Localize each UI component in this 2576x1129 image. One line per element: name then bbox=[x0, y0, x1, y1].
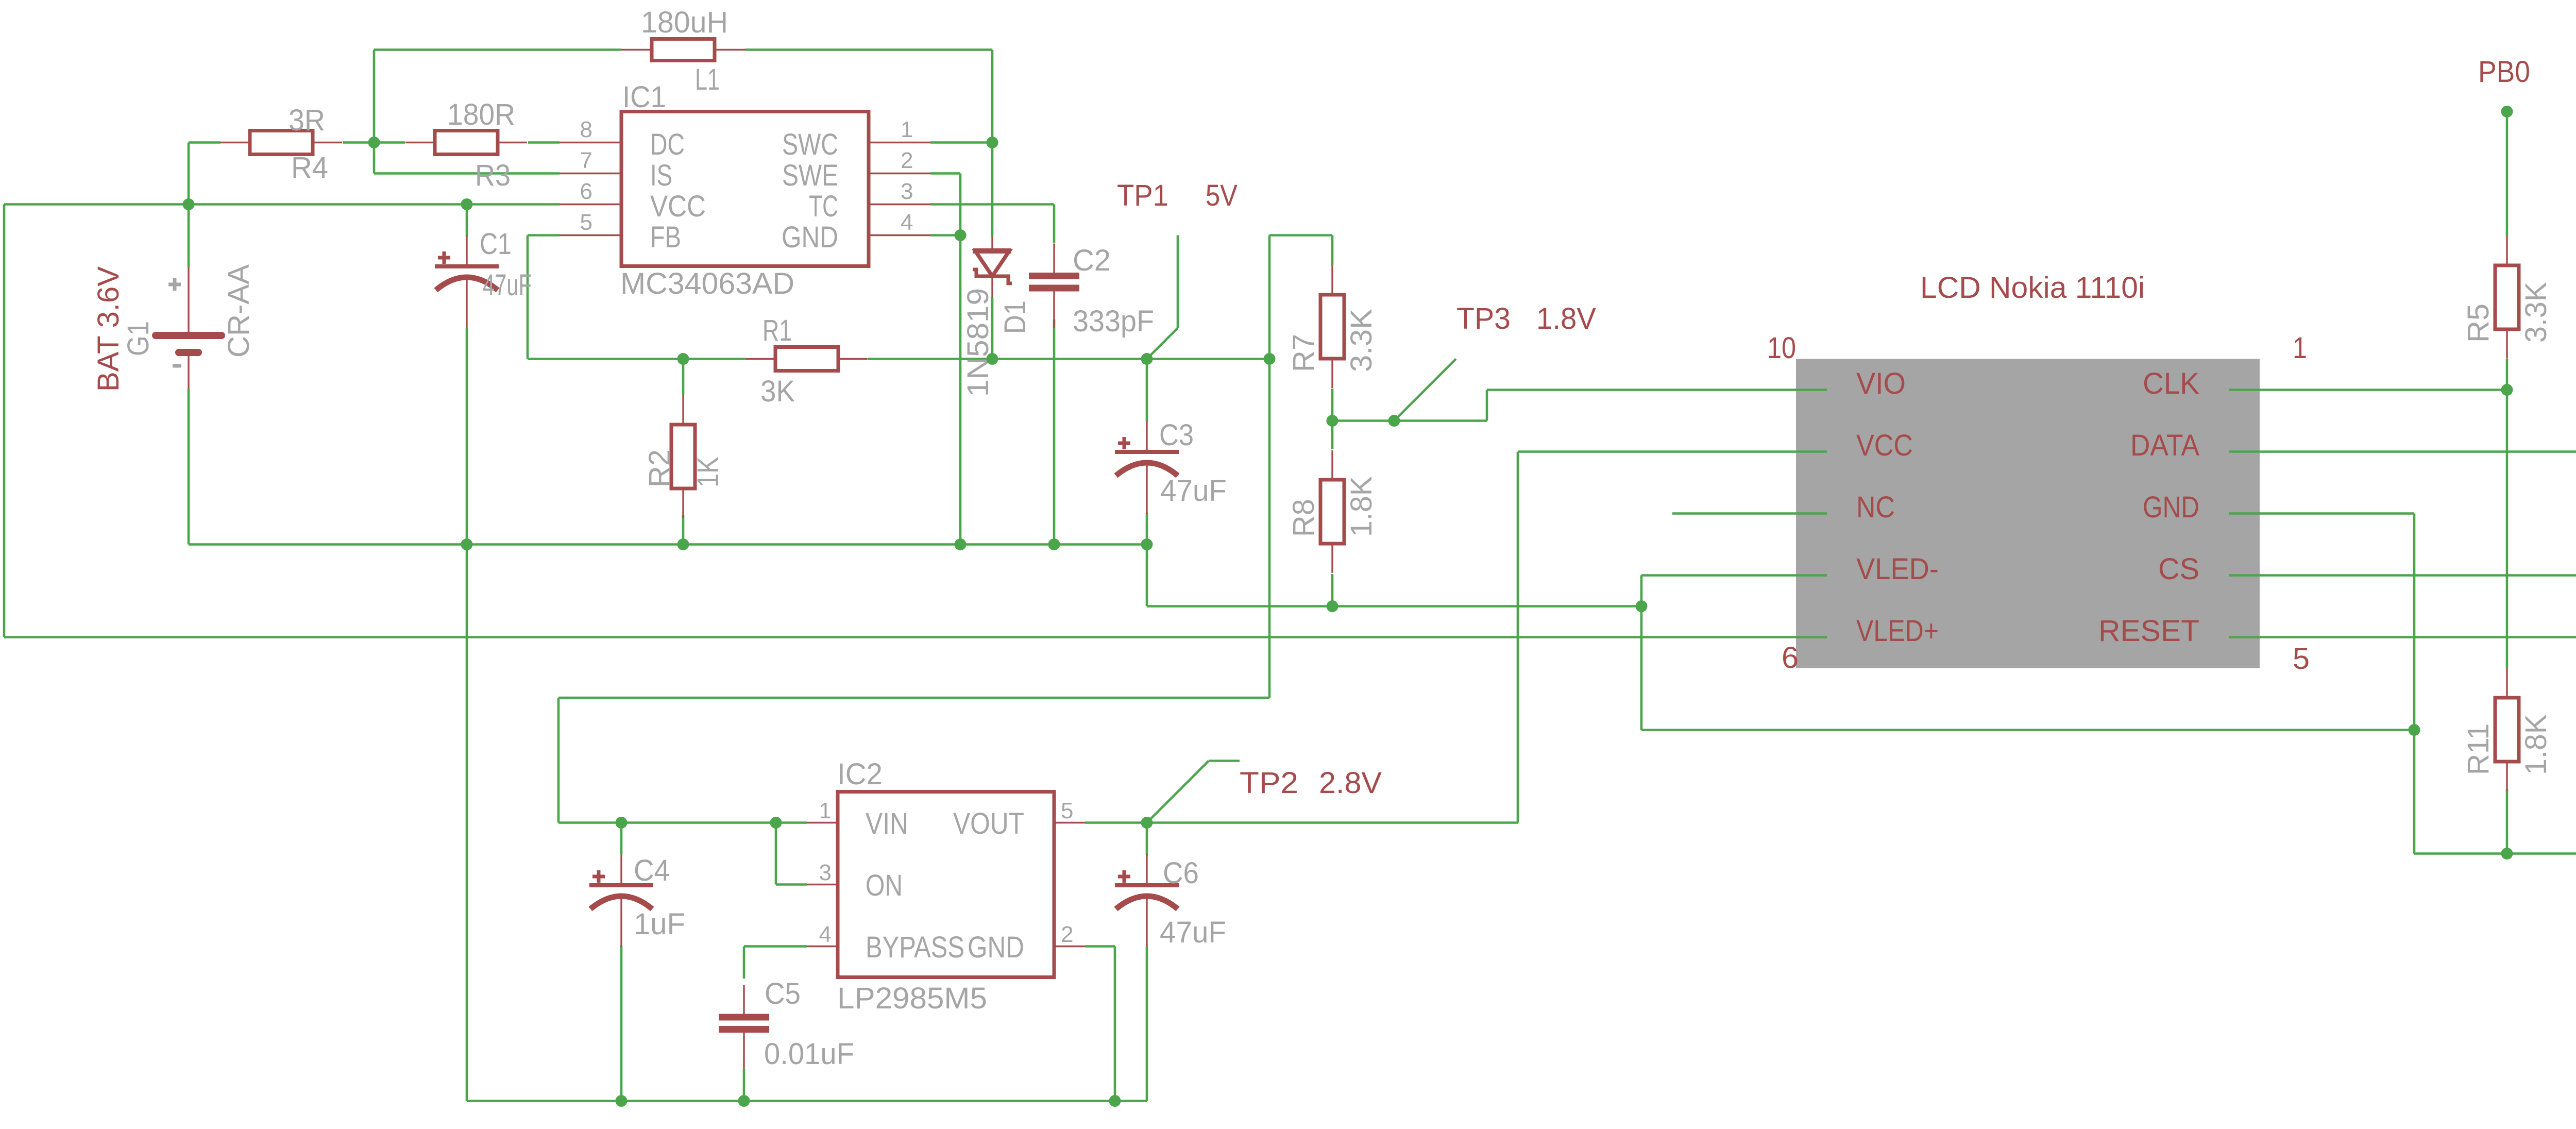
svg-text:IC2: IC2 bbox=[837, 757, 883, 791]
capacitor C6 47uF bbox=[1115, 854, 1226, 949]
svg-text:3.3K: 3.3K bbox=[1345, 309, 1378, 372]
junction R7 R8 divider node bbox=[1327, 415, 1338, 427]
node TP3 1.8V test point label bbox=[1456, 302, 1596, 335]
svg-text:1.8K: 1.8K bbox=[2519, 714, 2553, 775]
svg-text:VIO: VIO bbox=[1856, 367, 1906, 400]
svg-text:VOUT: VOUT bbox=[953, 807, 1024, 840]
svg-text:2.8V: 2.8V bbox=[1319, 766, 1382, 800]
svg-text:TP3: TP3 bbox=[1456, 302, 1511, 335]
node PB0 label bbox=[2478, 55, 2530, 89]
wire net IC2 ON tied to VIN bbox=[776, 823, 807, 885]
resistor R7 3.3K bbox=[1287, 265, 1378, 388]
junction C1 top VCC rail bbox=[461, 198, 473, 210]
svg-text:0.01uF: 0.01uF bbox=[764, 1037, 854, 1071]
wire net GND rail and branches bbox=[189, 174, 2576, 1101]
svg-text:RESET: RESET bbox=[2098, 614, 2199, 648]
svg-text:D1: D1 bbox=[998, 300, 1032, 334]
wire net 5V output rail bbox=[558, 205, 1332, 823]
svg-text:C3: C3 bbox=[1159, 418, 1194, 452]
wire net CLK from LCD to PB0 pullup bbox=[2229, 389, 2507, 391]
svg-text:1K: 1K bbox=[691, 457, 725, 487]
svg-text:C1: C1 bbox=[480, 227, 512, 261]
LCD pin CLK bbox=[2143, 367, 2199, 400]
LCD pin CS bbox=[2158, 552, 2199, 586]
junction VLED- GND branch bbox=[1636, 600, 1648, 612]
svg-text:1: 1 bbox=[2293, 331, 2307, 365]
svg-text:TP2: TP2 bbox=[1240, 766, 1298, 800]
svg-text:10: 10 bbox=[1767, 331, 1796, 365]
junction TP2 VOUT C6 node bbox=[1141, 817, 1153, 829]
svg-text:TP1: TP1 bbox=[1117, 179, 1168, 212]
svg-text:VLED-: VLED- bbox=[1856, 552, 1939, 586]
svg-text:5V: 5V bbox=[1206, 179, 1238, 212]
svg-text:4: 4 bbox=[819, 922, 832, 947]
op-amp IC1 MC34063AD switching regulator bbox=[560, 80, 930, 300]
wire net SWC top rail right of L1 down to diode D1 bbox=[745, 50, 992, 237]
svg-text:1.8V: 1.8V bbox=[1536, 302, 1596, 335]
wire net PB0 column bbox=[2506, 112, 2509, 669]
svg-text:VCC: VCC bbox=[1856, 429, 1913, 462]
capacitor C1 47uF bbox=[435, 227, 532, 328]
svg-text:R1: R1 bbox=[762, 314, 792, 347]
IC2 pin 2 GND bbox=[968, 922, 1073, 964]
junction C2 bottom GND rail bbox=[1048, 538, 1060, 550]
svg-text:DATA: DATA bbox=[2130, 429, 2199, 462]
wire net 2.8V VOUT of IC2 to LCD VCC bbox=[1085, 452, 1827, 856]
svg-text:47uF: 47uF bbox=[1160, 916, 1226, 949]
svg-text:C6: C6 bbox=[1163, 856, 1199, 890]
LCD pin VIO bbox=[1856, 367, 1906, 400]
svg-text:R8: R8 bbox=[1287, 499, 1320, 537]
LCD pin DATA bbox=[2130, 429, 2199, 462]
svg-text:3R: 3R bbox=[289, 104, 325, 137]
svg-text:ON: ON bbox=[866, 869, 903, 902]
junction IC2 GND bottom rail bbox=[1109, 1095, 1121, 1107]
wire net VCC 3.6V rail from battery to IC1 pin6 and VLED+ bbox=[4, 143, 1827, 637]
svg-text:5: 5 bbox=[2293, 642, 2310, 676]
svg-text:2: 2 bbox=[901, 148, 913, 173]
capacitor C2 333pF bbox=[1029, 244, 1154, 339]
node TP1 5V test point label bbox=[1117, 179, 1238, 212]
svg-text:GND: GND bbox=[2143, 491, 2199, 524]
resistor R5 3.3K bbox=[2462, 236, 2553, 359]
LCD pin GND bbox=[2143, 491, 2199, 524]
capacitor C3 47uF bbox=[1115, 418, 1227, 514]
svg-text:1.8K: 1.8K bbox=[1345, 476, 1378, 537]
junction C1 bottom GND rail bbox=[461, 538, 473, 550]
svg-text:5: 5 bbox=[1061, 798, 1073, 823]
LCD pin VLED+ bbox=[1856, 614, 1939, 648]
diode D1 1N5819 schottky bbox=[961, 237, 1032, 397]
svg-text:180uH: 180uH bbox=[641, 6, 728, 39]
svg-text:VIN: VIN bbox=[866, 807, 908, 840]
svg-text:GND: GND bbox=[968, 931, 1024, 964]
wire net IC2 BYPASS to C5 bbox=[744, 947, 807, 979]
capacitor C4 1uF bbox=[589, 854, 685, 947]
wire net DATA from LCD to PB1 pullup bbox=[2229, 450, 2576, 453]
IC1 pin 6 VCC bbox=[580, 179, 706, 223]
svg-text:8: 8 bbox=[580, 117, 592, 142]
svg-text:C2: C2 bbox=[1073, 244, 1111, 277]
svg-text:CR-AA: CR-AA bbox=[222, 264, 256, 358]
svg-text:CS: CS bbox=[2158, 552, 2199, 586]
svg-text:3.3K: 3.3K bbox=[2519, 282, 2553, 343]
svg-text:R2: R2 bbox=[643, 449, 676, 487]
LCD pin number 1 bbox=[2293, 331, 2307, 365]
svg-text:PB0: PB0 bbox=[2478, 55, 2530, 89]
svg-text:1uF: 1uF bbox=[634, 907, 685, 941]
junction TP3 node bbox=[1388, 415, 1400, 427]
svg-text:5: 5 bbox=[580, 210, 592, 235]
wire NC stub of LCD bbox=[1672, 512, 1827, 515]
node TP2 2.8V test point label bbox=[1240, 766, 1382, 800]
junction C3 bottom GND rail bbox=[1141, 538, 1153, 550]
svg-text:4: 4 bbox=[901, 210, 913, 235]
svg-text:7: 7 bbox=[580, 148, 592, 173]
junction R8 bottom GND bbox=[1327, 600, 1338, 612]
wire net CS from LCD to PB2 pullup bbox=[2229, 574, 2576, 577]
junction battery plus VCC rail bbox=[183, 198, 195, 210]
LCD pin number 5 bbox=[2293, 642, 2310, 676]
LCD pin VLED- bbox=[1856, 552, 1939, 586]
svg-text:IC1: IC1 bbox=[622, 80, 666, 114]
resistor R8 1.8K bbox=[1287, 450, 1378, 573]
wire net TP3 1.8V feedback tap to LCD VIO bbox=[1332, 359, 1827, 450]
svg-text:CLK: CLK bbox=[2143, 367, 2199, 400]
IC2 pin 1 VIN bbox=[819, 798, 908, 840]
capacitor C5 0.01uF bbox=[719, 977, 854, 1071]
svg-text:IS: IS bbox=[650, 159, 672, 192]
IC2 pin 5 VOUT bbox=[953, 798, 1073, 840]
junction C4 top VIN rail bbox=[616, 817, 628, 829]
svg-text:R3: R3 bbox=[475, 159, 511, 192]
LCD pin VCC bbox=[1856, 429, 1913, 462]
svg-text:180R: 180R bbox=[447, 98, 515, 131]
junction R2 bottom GND rail bbox=[677, 538, 689, 550]
svg-text:3: 3 bbox=[901, 179, 913, 204]
junction C4 bottom rail bbox=[616, 1095, 628, 1107]
IC1 pin 3 TC bbox=[809, 179, 913, 223]
junction SWC pin D1 column bbox=[987, 137, 998, 148]
LCD pin number 6 bbox=[1782, 641, 1799, 675]
resistor R3 180R bbox=[405, 98, 527, 192]
IC1 pin 2 SWE bbox=[782, 148, 913, 192]
IC2 pin 3 ON bbox=[819, 860, 903, 902]
junction CLK R5 column bbox=[2501, 384, 2513, 396]
resistor R2 1K bbox=[643, 395, 725, 518]
junction R11 bottom rail bbox=[2501, 848, 2513, 860]
connector LCD Nokia 1110i bbox=[1796, 271, 2260, 668]
svg-text:DC: DC bbox=[650, 128, 685, 161]
IC2 pin 4 BYPASS bbox=[819, 922, 964, 964]
svg-text:47uF: 47uF bbox=[1160, 474, 1227, 508]
svg-text:NC: NC bbox=[1856, 491, 1895, 524]
IC1 pin 5 FB bbox=[580, 210, 681, 254]
svg-text:6: 6 bbox=[1782, 641, 1799, 675]
junction D1 cathode 5V rail bbox=[987, 353, 998, 365]
svg-text:3: 3 bbox=[819, 860, 832, 885]
svg-text:47uF: 47uF bbox=[483, 268, 532, 302]
svg-text:BAT 3.6V: BAT 3.6V bbox=[92, 266, 125, 392]
svg-text:R11: R11 bbox=[2462, 723, 2495, 775]
svg-text:BYPASS: BYPASS bbox=[866, 931, 964, 964]
IC1 pin 4 GND bbox=[782, 210, 913, 254]
svg-text:333pF: 333pF bbox=[1073, 305, 1154, 338]
svg-text:2: 2 bbox=[1061, 922, 1073, 947]
svg-text:1: 1 bbox=[819, 798, 832, 823]
svg-text:FB: FB bbox=[650, 221, 681, 254]
wire net FB divider node bbox=[528, 235, 746, 396]
IC1 pin 7 IS bbox=[580, 148, 672, 192]
svg-text:1N5819: 1N5819 bbox=[961, 288, 995, 397]
svg-text:VCC: VCC bbox=[650, 190, 706, 223]
wire net R4-R3 node to top rail and IC1 pin7 bbox=[343, 50, 621, 174]
junction GND leg rail bbox=[955, 538, 967, 550]
svg-text:GND: GND bbox=[782, 221, 838, 254]
junction R4 R3 node bbox=[368, 137, 380, 148]
svg-text:LCD Nokia 1110i: LCD Nokia 1110i bbox=[1920, 271, 2145, 305]
resistor R11 1.8K bbox=[2462, 668, 2553, 791]
junction TP1 C3 5V rail bbox=[1141, 353, 1153, 365]
svg-text:G1: G1 bbox=[122, 321, 155, 356]
LCD pin number 10 bbox=[1767, 331, 1796, 365]
junction VIN pin node bbox=[770, 817, 782, 829]
svg-text:LP2985M5: LP2985M5 bbox=[837, 982, 987, 1015]
svg-text:L1: L1 bbox=[695, 63, 720, 96]
op-amp IC2 LP2985M5 LDO regulator bbox=[807, 757, 1085, 1015]
svg-text:SWC: SWC bbox=[782, 128, 838, 161]
wire net RESET from LCD to PB3 pullup bbox=[2229, 636, 2576, 638]
svg-text:R5: R5 bbox=[2462, 304, 2495, 343]
junction 5V riser rail bbox=[1264, 353, 1276, 365]
svg-text:6: 6 bbox=[580, 179, 592, 204]
resistor R1 3K bbox=[746, 314, 868, 408]
svg-text:1: 1 bbox=[901, 117, 913, 142]
svg-text:R4: R4 bbox=[291, 151, 328, 184]
junction right GND vertical bbox=[2409, 724, 2420, 736]
junction PB0 stub end bbox=[2501, 106, 2513, 117]
svg-text:VLED+: VLED+ bbox=[1856, 614, 1939, 648]
svg-text:MC34063AD: MC34063AD bbox=[620, 267, 794, 300]
battery G1 BAT 3.6V CR-AA bbox=[92, 264, 256, 392]
IC1 pin 8 DC bbox=[580, 117, 685, 161]
svg-text:3K: 3K bbox=[760, 375, 795, 408]
LCD pin RESET bbox=[2098, 614, 2199, 648]
LCD pin NC bbox=[1856, 491, 1895, 524]
junction FB R1 R2 node bbox=[677, 353, 689, 365]
junction C5 bottom rail bbox=[738, 1095, 750, 1107]
svg-text:R7: R7 bbox=[1287, 334, 1320, 372]
svg-text:SWE: SWE bbox=[782, 159, 838, 192]
resistor R4 3R bbox=[221, 104, 342, 184]
junction SWE GND pin node bbox=[955, 229, 967, 241]
svg-text:C4: C4 bbox=[634, 854, 670, 887]
svg-text:TC: TC bbox=[809, 190, 838, 223]
IC1 pin 1 SWC bbox=[782, 117, 913, 161]
inductor L1 180uH bbox=[621, 6, 745, 96]
svg-text:C5: C5 bbox=[765, 977, 801, 1010]
